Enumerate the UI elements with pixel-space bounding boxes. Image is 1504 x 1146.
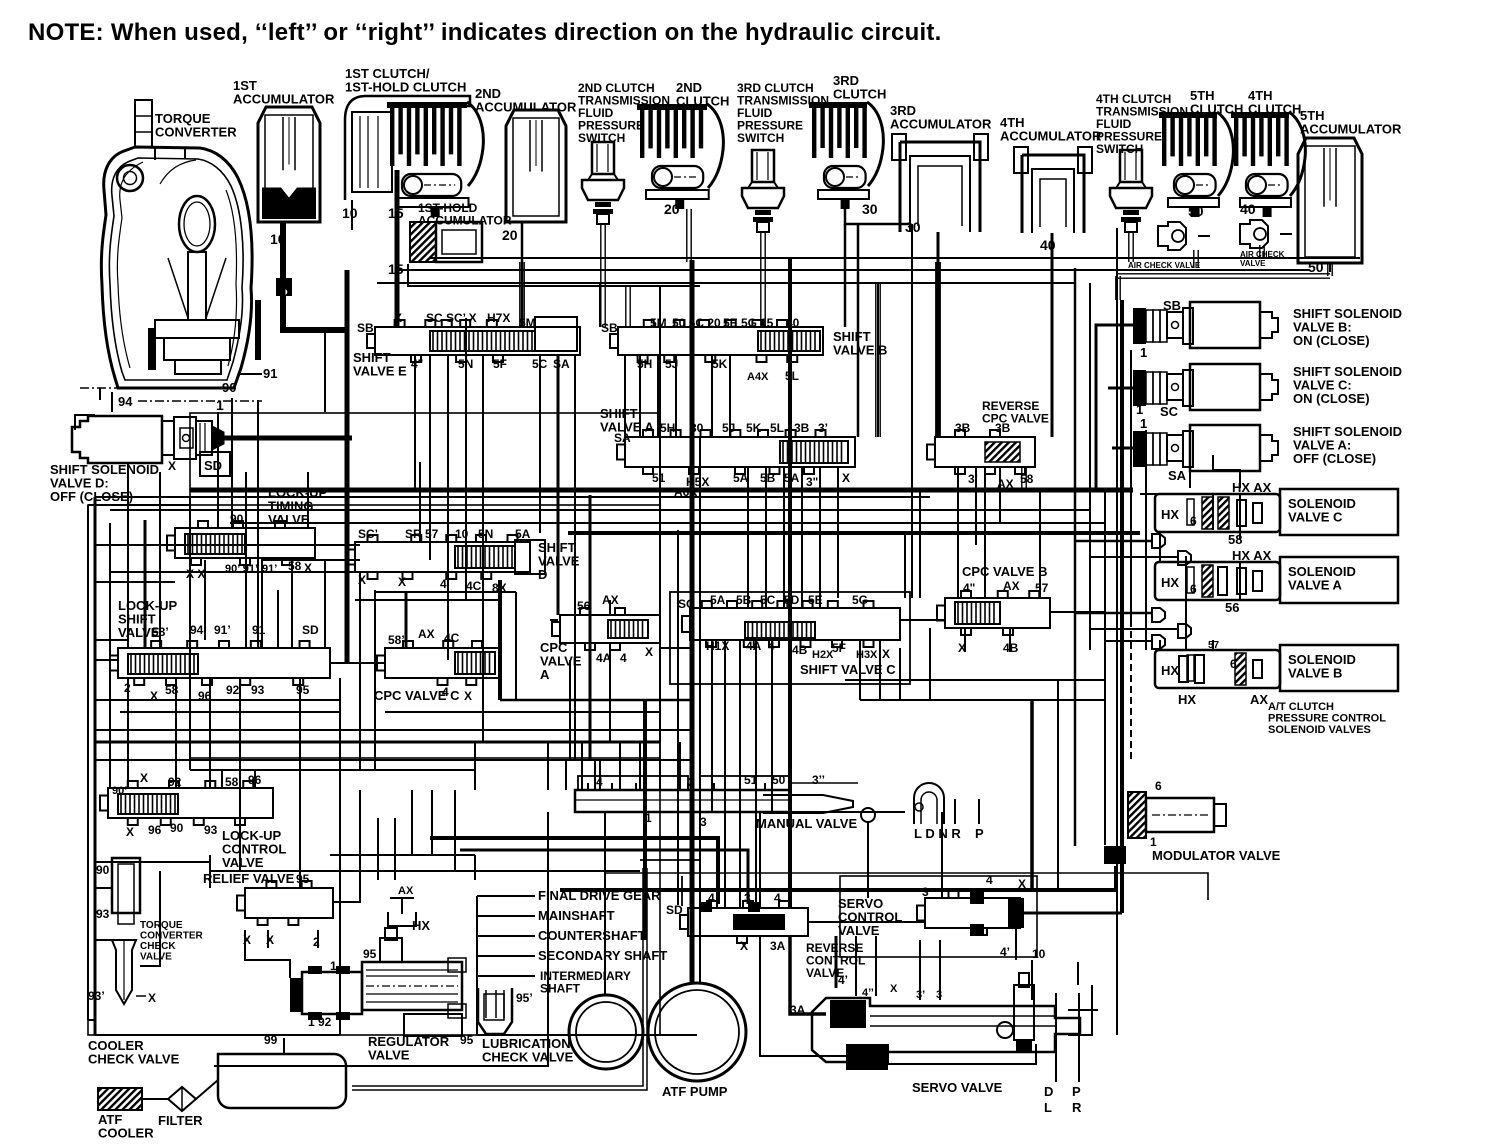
svg-text:VALVE B: VALVE B <box>833 343 887 358</box>
svg-text:X: X <box>464 689 472 703</box>
svg-text:ACCUMULATOR: ACCUMULATOR <box>475 100 577 115</box>
svg-text:COOLER: COOLER <box>98 1126 154 1141</box>
svg-text:50 5C 20: 50 5C 20 <box>672 316 721 330</box>
svg-text:5N: 5N <box>478 527 493 541</box>
svg-text:95: 95 <box>363 947 377 961</box>
svg-text:CPC VALVE: CPC VALVE <box>982 412 1049 426</box>
svg-text:4: 4 <box>440 577 447 591</box>
svg-text:4A: 4A <box>746 639 762 653</box>
svg-text:5A: 5A <box>733 471 749 485</box>
svg-text:5L: 5L <box>770 421 784 435</box>
svg-text:X: X <box>890 983 898 995</box>
svg-text:PRESSURE CONTROL: PRESSURE CONTROL <box>1268 713 1386 725</box>
svg-text:SD: SD <box>666 903 683 917</box>
svg-text:CHECK VALVE: CHECK VALVE <box>88 1052 180 1067</box>
svg-text:CHECK VALVE: CHECK VALVE <box>482 1050 574 1065</box>
svg-text:VALVE C: VALVE C <box>1288 510 1343 525</box>
svg-text:ACCUMULATOR: ACCUMULATOR <box>890 117 992 132</box>
svg-text:5G: 5G <box>852 593 868 607</box>
svg-text:50: 50 <box>1308 259 1324 275</box>
svg-text:CPC VALVE B: CPC VALVE B <box>962 564 1047 579</box>
svg-text:5K: 5K <box>712 357 728 371</box>
svg-text:R: R <box>1072 1100 1082 1115</box>
svg-text:ON (CLOSE): ON (CLOSE) <box>1293 333 1370 348</box>
svg-text:P: P <box>1072 1084 1081 1099</box>
svg-text:5F: 5F <box>493 357 507 371</box>
svg-text:3’’: 3’’ <box>812 773 825 787</box>
svg-text:CONVERTER: CONVERTER <box>155 125 237 140</box>
svg-text:VALVE: VALVE <box>268 512 310 527</box>
svg-text:SWITCH: SWITCH <box>737 131 784 145</box>
svg-text:4: 4 <box>708 891 715 905</box>
svg-text:93: 93 <box>96 907 110 921</box>
svg-text:1: 1 <box>216 397 224 413</box>
svg-text:90: 90 <box>170 821 184 835</box>
svg-text:ATF PUMP: ATF PUMP <box>662 1084 728 1099</box>
svg-text:ACCUMULATOR: ACCUMULATOR <box>1000 129 1102 144</box>
svg-text:3: 3 <box>744 891 751 905</box>
svg-text:56: 56 <box>1225 600 1239 615</box>
svg-text:SB: SB <box>1163 298 1181 313</box>
svg-text:CHECK: CHECK <box>140 941 176 952</box>
svg-text:P: P <box>975 826 984 841</box>
svg-text:5K: 5K <box>746 421 762 435</box>
svg-text:3B: 3B <box>995 421 1011 435</box>
svg-text:93: 93 <box>204 823 218 837</box>
svg-text:91’: 91’ <box>262 563 277 575</box>
svg-text:SA: SA <box>553 357 570 371</box>
svg-text:TORQUE: TORQUE <box>140 920 183 931</box>
svg-text:X: X <box>882 647 890 661</box>
svg-text:58: 58 <box>225 775 239 789</box>
svg-text:5L: 5L <box>785 369 799 383</box>
svg-text:SC’: SC’ <box>358 527 378 541</box>
svg-text:6: 6 <box>1190 582 1197 596</box>
svg-text:5F: 5F <box>832 641 846 655</box>
svg-text:90: 90 <box>96 863 110 877</box>
svg-text:50: 50 <box>772 773 786 787</box>
svg-text:30: 30 <box>862 201 878 217</box>
svg-text:ON (CLOSE): ON (CLOSE) <box>1293 391 1370 406</box>
svg-text:H7X: H7X <box>487 311 510 325</box>
svg-text:X: X <box>740 939 748 953</box>
svg-text:20: 20 <box>664 201 680 217</box>
svg-text:RELIEF VALVE: RELIEF VALVE <box>203 871 295 886</box>
svg-text:3: 3 <box>700 815 707 829</box>
svg-text:HX: HX <box>1178 692 1196 707</box>
svg-text:SOLENOID VALVES: SOLENOID VALVES <box>1268 724 1371 736</box>
svg-text:1ST-HOLD CLUTCH: 1ST-HOLD CLUTCH <box>345 80 466 95</box>
svg-text:CONVERTER: CONVERTER <box>140 931 204 942</box>
svg-text:VALVE: VALVE <box>1240 259 1266 268</box>
svg-text:MAINSHAFT: MAINSHAFT <box>538 908 615 923</box>
svg-text:4": 4" <box>963 581 975 595</box>
svg-text:HX: HX <box>1161 507 1179 522</box>
svg-text:ACCUMULATOR: ACCUMULATOR <box>1300 122 1402 137</box>
svg-text:20: 20 <box>502 227 518 243</box>
svg-text:1: 1 <box>1140 416 1147 431</box>
svg-text:4: 4 <box>774 891 781 905</box>
svg-text:AX: AX <box>418 627 435 641</box>
svg-text:A/T CLUTCH: A/T CLUTCH <box>1268 701 1334 713</box>
svg-text:AIR CHECK VALVE: AIR CHECK VALVE <box>1128 261 1201 270</box>
svg-text:SA: SA <box>614 431 631 445</box>
svg-text:VALVE A: VALVE A <box>1288 578 1343 593</box>
svg-text:50: 50 <box>1188 203 1204 219</box>
svg-text:L D N R: L D N R <box>914 826 961 841</box>
svg-text:X: X <box>645 645 653 659</box>
svg-text:5A: 5A <box>710 593 726 607</box>
svg-text:91: 91 <box>263 366 277 381</box>
svg-text:5E 5G: 5E 5G <box>723 316 757 330</box>
svg-text:AX: AX <box>1003 579 1020 593</box>
svg-text:1 92: 1 92 <box>308 1015 332 1029</box>
svg-text:4’: 4’ <box>838 973 848 987</box>
svg-text:10: 10 <box>1032 947 1046 961</box>
svg-text:5B: 5B <box>736 593 752 607</box>
svg-text:96: 96 <box>148 823 162 837</box>
svg-text:1: 1 <box>1136 402 1143 417</box>
svg-text:91: 91 <box>252 623 266 637</box>
svg-text:4’’: 4’’ <box>862 987 874 999</box>
svg-text:5A: 5A <box>515 527 531 541</box>
svg-text:4C: 4C <box>444 631 460 645</box>
svg-text:91’: 91’ <box>214 623 231 637</box>
svg-text:NOTE: When used, ‘‘left’’ or ‘: NOTE: When used, ‘‘left’’ or ‘‘right’’ i… <box>28 19 942 46</box>
svg-text:MODULATOR VALVE: MODULATOR VALVE <box>1152 848 1281 863</box>
svg-text:MANUAL VALVE: MANUAL VALVE <box>756 816 857 831</box>
svg-text:4": 4" <box>411 357 423 371</box>
svg-text:VALVE: VALVE <box>368 1048 410 1063</box>
svg-text:58: 58 <box>288 559 302 573</box>
svg-text:4B: 4B <box>792 643 808 657</box>
svg-text:10: 10 <box>342 205 358 221</box>
svg-text:95: 95 <box>296 683 310 697</box>
svg-text:93: 93 <box>251 683 265 697</box>
svg-text:SHIFT VALVE C: SHIFT VALVE C <box>800 662 896 677</box>
svg-text:A: A <box>540 667 550 682</box>
svg-text:57: 57 <box>1035 581 1049 595</box>
svg-text:CLUTCH: CLUTCH <box>833 87 886 102</box>
svg-text:AX: AX <box>1250 692 1268 707</box>
svg-text:VALVE: VALVE <box>838 923 880 938</box>
svg-text:VALVE: VALVE <box>222 855 264 870</box>
svg-text:51: 51 <box>652 471 666 485</box>
svg-text:SD: SD <box>204 458 222 473</box>
svg-text:ACCUMULATOR: ACCUMULATOR <box>233 92 335 107</box>
svg-text:SHAFT: SHAFT <box>540 982 581 996</box>
svg-text:FILTER: FILTER <box>158 1113 203 1128</box>
svg-text:95’: 95’ <box>516 991 533 1005</box>
svg-text:40: 40 <box>1240 201 1256 217</box>
svg-text:SR 57: SR 57 <box>405 527 439 541</box>
svg-text:X: X <box>168 459 176 473</box>
svg-text:OFF (CLOSE): OFF (CLOSE) <box>1293 451 1376 466</box>
svg-text:6: 6 <box>1230 657 1237 671</box>
svg-text:X: X <box>148 991 156 1005</box>
svg-text:SB: SB <box>601 321 618 335</box>
svg-text:X X: X X <box>186 567 205 581</box>
svg-text:3B: 3B <box>794 421 810 435</box>
svg-text:3A: 3A <box>770 939 786 953</box>
svg-text:4: 4 <box>986 873 993 887</box>
svg-text:92: 92 <box>168 775 182 789</box>
svg-text:90: 90 <box>222 380 236 395</box>
svg-text:COUNTERSHAFT: COUNTERSHAFT <box>538 928 646 943</box>
svg-text:VALVE E: VALVE E <box>353 364 407 379</box>
svg-text:94: 94 <box>118 394 133 409</box>
svg-text:3B: 3B <box>955 421 971 435</box>
svg-text:SECONDARY SHAFT: SECONDARY SHAFT <box>538 948 667 963</box>
svg-text:5C: 5C <box>760 593 776 607</box>
svg-text:HX: HX <box>1161 575 1179 590</box>
svg-text:X: X <box>842 471 850 485</box>
svg-text:90’ 91’: 90’ 91’ <box>225 563 258 575</box>
svg-text:1: 1 <box>1150 835 1157 849</box>
svg-text:92: 92 <box>226 683 240 697</box>
svg-text:AX: AX <box>398 885 414 897</box>
svg-text:X: X <box>398 575 406 589</box>
svg-text:90’: 90’ <box>112 785 127 797</box>
svg-text:VALVE: VALVE <box>140 952 172 963</box>
svg-text:A4X: A4X <box>747 371 769 383</box>
svg-text:95: 95 <box>296 872 310 886</box>
svg-text:H2X: H2X <box>812 649 834 661</box>
svg-text:X: X <box>140 771 148 785</box>
svg-text:SA: SA <box>1168 468 1187 483</box>
svg-text:4C: 4C <box>466 579 482 593</box>
svg-text:SC SC’ X: SC SC’ X <box>426 311 477 325</box>
svg-text:5B: 5B <box>760 471 776 485</box>
svg-text:5H: 5H <box>660 421 675 435</box>
svg-text:CPC VALVE C: CPC VALVE C <box>374 688 460 703</box>
svg-text:58’: 58’ <box>388 633 405 647</box>
svg-text:VALVE B: VALVE B <box>1288 666 1342 681</box>
svg-text:SD: SD <box>302 623 319 637</box>
svg-text:5J: 5J <box>722 421 735 435</box>
svg-text:SERVO VALVE: SERVO VALVE <box>912 1080 1003 1095</box>
svg-text:94: 94 <box>190 623 204 637</box>
svg-text:D: D <box>538 567 547 582</box>
svg-text:6: 6 <box>1190 514 1197 528</box>
svg-text:5M: 5M <box>650 316 667 330</box>
svg-text:1: 1 <box>330 959 337 973</box>
svg-text:HX: HX <box>1161 663 1179 678</box>
svg-text:D: D <box>1044 1084 1053 1099</box>
svg-text:SB: SB <box>357 321 374 335</box>
svg-text:1: 1 <box>1140 345 1147 360</box>
svg-text:6: 6 <box>1155 779 1162 793</box>
svg-text:3": 3" <box>806 475 818 489</box>
svg-text:L: L <box>1044 1100 1052 1115</box>
svg-text:3’: 3’ <box>818 421 828 435</box>
svg-text:15: 15 <box>760 316 774 330</box>
svg-text:4: 4 <box>620 651 627 665</box>
svg-text:SC: SC <box>1160 404 1179 419</box>
svg-text:X: X <box>126 825 134 839</box>
